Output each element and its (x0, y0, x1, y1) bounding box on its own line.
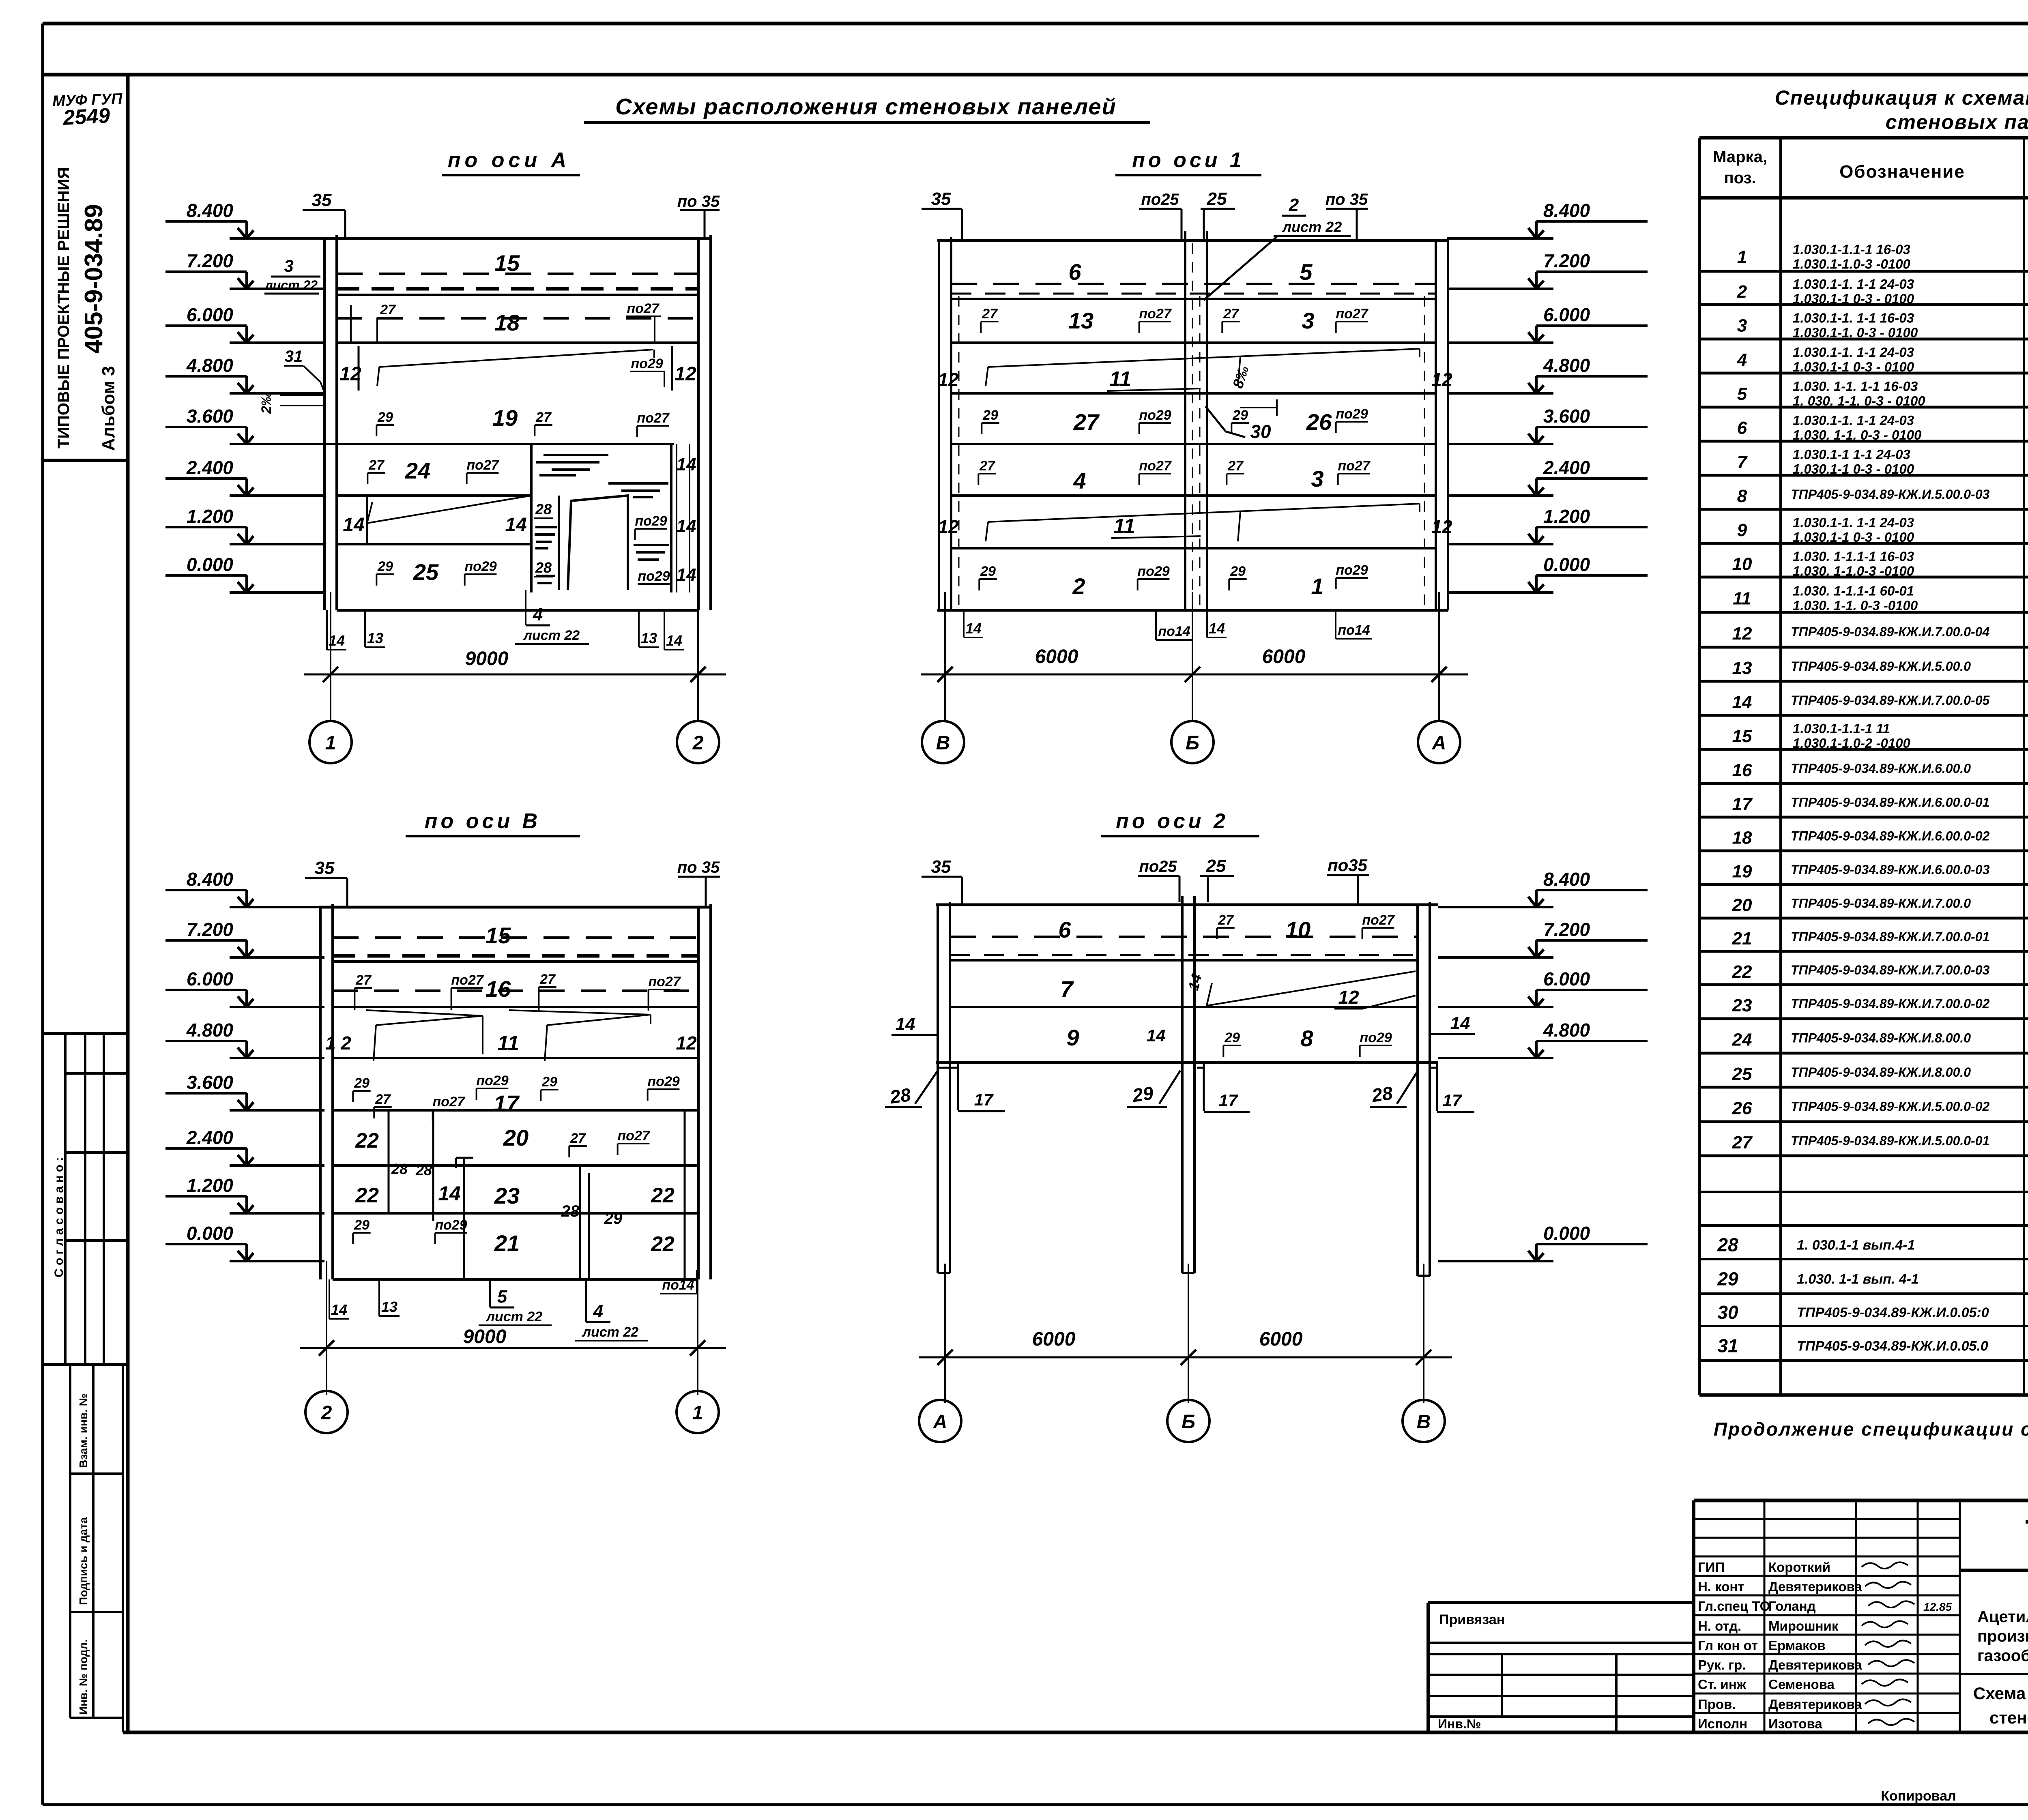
svg-text:9: 9 (1066, 1025, 1079, 1050)
wall outline po osi 2 (936, 904, 1438, 906)
svg-text:по29: по29 (1137, 564, 1169, 579)
svg-text:29: 29 (354, 1217, 370, 1233)
svg-text:ТПР405-9-034.89-КЖ.И.8.00.0: ТПР405-9-034.89-КЖ.И.8.00.0 (1791, 1031, 1971, 1045)
svg-text:13: 13 (641, 630, 657, 646)
svg-text:29: 29 (541, 1074, 557, 1090)
svg-text:по оси 2: по оси 2 (1116, 809, 1229, 833)
svg-text:2: 2 (1737, 282, 1747, 302)
svg-text:ТПР405-9-034.89-КЖ.И.5.00.0-01: ТПР405-9-034.89-КЖ.И.5.00.0-01 (1791, 1133, 1989, 1148)
svg-text:стеновых панелей: стеновых панелей (1989, 1708, 2028, 1727)
svg-text:по29: по29 (1336, 406, 1368, 422)
svg-text:7.200: 7.200 (1543, 250, 1590, 271)
svg-text:Девятерикова: Девятерикова (1768, 1657, 1862, 1672)
svg-text:12: 12 (339, 363, 361, 385)
svg-text:Альбом 3: Альбом 3 (99, 366, 118, 451)
svg-text:лист 22: лист 22 (523, 628, 580, 643)
svg-text:2549: 2549 (62, 104, 111, 130)
svg-text:по27: по27 (451, 972, 484, 988)
svg-text:по29: по29 (464, 559, 496, 574)
svg-text:ТПР405-9-034.89-КЖ.И.7.00.0-03: ТПР405-9-034.89-КЖ.И.7.00.0-03 (1791, 963, 1990, 977)
svg-text:20: 20 (1732, 895, 1752, 915)
svg-text:17: 17 (1732, 794, 1753, 814)
svg-text:8: 8 (1737, 486, 1747, 506)
elevation mark 6.000 right (1438, 1006, 1553, 1008)
svg-text:8.400: 8.400 (187, 869, 234, 890)
diagonals row 1.200 po osi 1 (988, 504, 1420, 522)
svg-text:по 35: по 35 (1326, 191, 1368, 208)
svg-text:21: 21 (494, 1230, 520, 1256)
svg-text:12: 12 (938, 369, 959, 390)
svg-text:29: 29 (1230, 564, 1246, 579)
svg-text:2: 2 (1072, 573, 1085, 599)
svg-text:28: 28 (1370, 1082, 1394, 1106)
svg-text:по27: по27 (1338, 458, 1371, 474)
svg-text:27: 27 (380, 302, 396, 318)
svg-text:29: 29 (377, 559, 393, 574)
svg-text:13: 13 (381, 1298, 397, 1315)
svg-text:14: 14 (1147, 1026, 1166, 1045)
dashed lines po osi 2 (950, 936, 1418, 938)
svg-text:12: 12 (675, 363, 696, 385)
svg-text:1.030. 1-1. 0-3 -0100: 1.030. 1-1. 0-3 -0100 (1793, 598, 1918, 613)
svg-text:11: 11 (1733, 589, 1751, 609)
svg-text:7.200: 7.200 (187, 919, 234, 940)
diagonal panel lead line row 4.800-6.000 (379, 350, 653, 367)
svg-text:0.000: 0.000 (187, 554, 234, 575)
svg-text:8: 8 (1300, 1026, 1313, 1051)
elevation mark 4.800 right (1448, 392, 1553, 395)
svg-text:1.030. 1-1 вып. 4-1: 1.030. 1-1 вып. 4-1 (1797, 1272, 1919, 1287)
svg-text:Ермаков: Ермаков (1768, 1638, 1826, 1653)
dashed 7.200 po osi B (333, 936, 698, 939)
svg-text:28: 28 (1717, 1234, 1738, 1256)
svg-text:1.030.1-1. 0-3 - 0100: 1.030.1-1. 0-3 - 0100 (1793, 325, 1918, 340)
svg-text:9000: 9000 (465, 648, 509, 670)
svg-text:лист 22: лист 22 (1282, 219, 1342, 235)
svg-text:29: 29 (980, 564, 996, 579)
elevation mark 8.400 right (1448, 237, 1553, 240)
svg-text:4.800: 4.800 (186, 1019, 234, 1041)
svg-text:ТПР405-9-034.89-КЖ.И.7.00.0-02: ТПР405-9-034.89-КЖ.И.7.00.0-02 (1791, 996, 1990, 1011)
svg-text:29: 29 (1232, 408, 1248, 423)
svg-text:0.000: 0.000 (1543, 1223, 1590, 1244)
svg-text:35: 35 (931, 857, 951, 877)
svg-text:Гл кон от: Гл кон от (1698, 1638, 1758, 1653)
svg-text:Ст. инж: Ст. инж (1698, 1677, 1747, 1692)
svg-text:3: 3 (1737, 316, 1747, 336)
svg-text:18: 18 (1732, 828, 1752, 848)
sheet inner frame top line (43, 73, 2028, 77)
svg-text:27: 27 (982, 306, 998, 322)
svg-text:1.030. 1-1. 1-1 16-03: 1.030. 1-1. 1-1 16-03 (1793, 379, 1918, 394)
svg-text:Обозначение: Обозначение (1839, 162, 1965, 182)
svg-text:22: 22 (355, 1129, 379, 1153)
svg-text:1.200: 1.200 (1543, 506, 1590, 527)
svg-text:15: 15 (486, 923, 511, 948)
svg-text:1.030.1-1. 1-1 16-03: 1.030.1-1. 1-1 16-03 (1793, 311, 1914, 326)
svg-text:А: А (933, 1411, 947, 1433)
svg-text:35: 35 (315, 858, 335, 878)
svg-text:Подпись и дата: Подпись и дата (77, 1517, 90, 1605)
svg-text:23: 23 (494, 1183, 520, 1208)
spec table header (1699, 136, 2028, 140)
svg-text:7.200: 7.200 (187, 250, 234, 271)
svg-text:29: 29 (1224, 1030, 1240, 1045)
sheet outer border (43, 22, 2028, 26)
svg-text:10: 10 (1732, 554, 1752, 574)
svg-text:по27: по27 (627, 301, 660, 316)
svg-text:Марка,: Марка, (1713, 148, 1767, 166)
svg-text:14: 14 (666, 632, 682, 649)
svg-text:Инв. № подл.: Инв. № подл. (77, 1639, 90, 1715)
svg-text:30: 30 (1717, 1302, 1738, 1323)
svg-text:по14: по14 (1158, 624, 1190, 639)
line 2.400 po osi 1 (951, 494, 1436, 497)
svg-text:1.030.1-1.1-1 16-03: 1.030.1-1.1-1 16-03 (1793, 242, 1910, 257)
svg-text:22: 22 (651, 1184, 675, 1207)
svg-text:27: 27 (375, 1092, 391, 1107)
svg-text:лист 22: лист 22 (582, 1324, 638, 1340)
dimension line 6000 6000 po osi 1 (944, 592, 946, 722)
svg-text:2: 2 (692, 732, 704, 754)
svg-text:4: 4 (1073, 468, 1086, 494)
svg-text:Пров.: Пров. (1698, 1697, 1736, 1712)
svg-text:ТПР405-9-034.89-КЖ.И.7.00.0: ТПР405-9-034.89-КЖ.И.7.00.0 (1791, 896, 1971, 911)
svg-text:Девятерикова: Девятерикова (1768, 1579, 1862, 1594)
svg-text:Девятерикова: Девятерикова (1768, 1697, 1862, 1712)
svg-text:Короткий: Короткий (1768, 1560, 1830, 1575)
svg-text:1.200: 1.200 (187, 1175, 234, 1196)
svg-text:1.030.1-1. 1-1 24-03: 1.030.1-1. 1-1 24-03 (1793, 413, 1914, 428)
svg-text:ТПР405-9-034.89-КЖ.И.6.00.0-02: ТПР405-9-034.89-КЖ.И.6.00.0-02 (1791, 829, 1990, 843)
sidebar Согласовано grid (64, 1034, 67, 1365)
svg-text:14: 14 (1450, 1013, 1470, 1033)
svg-text:Ацетиленовая станция УАС–20Г: Ацетиленовая станция УАС–20Г (1977, 1608, 2028, 1626)
svg-text:1.030.1-1 0-3 - 0100: 1.030.1-1 0-3 - 0100 (1793, 530, 1914, 545)
diagonals 4.800 row po osi B (376, 1016, 483, 1025)
svg-text:2: 2 (1289, 195, 1299, 215)
elevation mark 8.400 right (1438, 906, 1553, 908)
spec table column lines (1698, 138, 1701, 1395)
line 6.000 po osi B (333, 1006, 698, 1008)
elevation mark 7.200 right (1438, 956, 1553, 959)
svg-text:6000: 6000 (1035, 646, 1078, 667)
svg-text:В: В (1417, 1411, 1431, 1433)
svg-text:1.030.1-1. 1-1 24-03: 1.030.1-1. 1-1 24-03 (1793, 277, 1914, 292)
svg-text:27: 27 (1227, 458, 1244, 474)
column Б middle po osi 1 (1184, 231, 1186, 610)
svg-text:27: 27 (355, 972, 372, 988)
svg-text:ТПР405-9-034.89-КЖ.И.0.05.0: ТПР405-9-034.89-КЖ.И.0.05.0 (1797, 1339, 1988, 1354)
spec table rows (1699, 270, 2028, 273)
sidebar box Подпись и дата (70, 1611, 123, 1613)
axis circle 1 lower (677, 1391, 719, 1433)
svg-text:по29: по29 (647, 1074, 679, 1089)
svg-text:по оси А: по оси А (448, 148, 570, 172)
svg-text:по27: по27 (1139, 306, 1172, 322)
svg-text:6.000: 6.000 (1543, 304, 1590, 325)
line 2.400 across (337, 494, 531, 497)
svg-text:25: 25 (1732, 1064, 1752, 1084)
svg-text:по14: по14 (1338, 622, 1370, 638)
svg-text:4: 4 (1737, 350, 1747, 370)
axis circle 2 (677, 721, 719, 763)
wall outline po osi A (323, 237, 712, 240)
svg-text:26: 26 (1732, 1099, 1752, 1118)
svg-text:28: 28 (535, 559, 552, 576)
axis circle А (1418, 721, 1460, 763)
svg-text:27: 27 (979, 458, 996, 474)
line 4.800 po osi 1 (951, 392, 1436, 395)
svg-text:ТПР405-9-034.89-КЖ.И.7.00.0-01: ТПР405-9-034.89-КЖ.И.7.00.0-01 (1791, 929, 1989, 944)
svg-text:28: 28 (561, 1202, 580, 1220)
svg-text:Семенова: Семенова (1768, 1677, 1835, 1692)
svg-text:3.600: 3.600 (187, 406, 234, 427)
svg-text:6000: 6000 (1259, 1329, 1303, 1350)
svg-text:25: 25 (1207, 189, 1227, 209)
panel label 18 with dashed line (337, 317, 698, 320)
svg-text:1.030.1-1 1-1 24-03: 1.030.1-1 1-1 24-03 (1793, 447, 1910, 462)
line 3.600 po osi 1 (951, 443, 1436, 445)
svg-text:17: 17 (1443, 1091, 1462, 1110)
elevation mark 0.000 right (1448, 591, 1553, 594)
svg-text:14: 14 (677, 565, 696, 585)
svg-text:5: 5 (1737, 384, 1747, 404)
svg-text:1.030.1-1.0-2 -0100: 1.030.1-1.0-2 -0100 (1793, 736, 1911, 751)
svg-text:6000: 6000 (1032, 1329, 1076, 1350)
svg-text:19: 19 (492, 405, 518, 431)
svg-text:по27: по27 (617, 1128, 650, 1144)
svg-text:ТПР405-9-034.89-КЖ.И.5.00.0: ТПР405-9-034.89-КЖ.И.5.00.0 (1791, 659, 1971, 674)
line 1.200 po osi 1 (951, 547, 1436, 549)
svg-text:405-9-034.89: 405-9-034.89 (80, 204, 108, 354)
svg-text:3: 3 (1302, 308, 1314, 333)
console corbel stubs po osi 2 (938, 1067, 958, 1069)
svg-text:Инв.№: Инв.№ (1438, 1717, 1481, 1731)
svg-text:15: 15 (494, 250, 520, 276)
svg-text:27: 27 (1218, 912, 1234, 928)
inner frame left edge (126, 75, 130, 1732)
svg-text:25: 25 (413, 559, 439, 585)
svg-text:1: 1 (1737, 247, 1747, 267)
svg-text:27: 27 (1073, 409, 1100, 435)
svg-text:12: 12 (676, 1032, 697, 1054)
elevation mark 7.200 right (1448, 288, 1553, 290)
svg-text:29: 29 (1717, 1268, 1738, 1290)
svg-text:2‰: 2‰ (259, 392, 274, 414)
svg-text:поз.: поз. (1724, 169, 1756, 187)
svg-text:9000: 9000 (463, 1326, 507, 1348)
svg-text:газообразного ацетилена: газообразного ацетилена (1977, 1647, 2028, 1665)
column axis 1 (left) of po osi A (323, 238, 326, 610)
svg-text:2.400: 2.400 (186, 457, 234, 478)
svg-text:Н. конт: Н. конт (1698, 1579, 1744, 1594)
axis circle 1 (309, 721, 352, 763)
line 6.000 po osi 2 (950, 1006, 1418, 1008)
svg-text:по29: по29 (1360, 1030, 1392, 1045)
svg-text:11: 11 (497, 1032, 519, 1055)
svg-text:12: 12 (1338, 987, 1359, 1008)
svg-text:Б: Б (1182, 1411, 1195, 1433)
axis circle 2 lower (305, 1391, 348, 1433)
svg-text:6000: 6000 (1262, 646, 1306, 667)
svg-text:по29: по29 (476, 1073, 508, 1088)
privyazan table (1428, 1601, 1694, 1604)
svg-text:по 35: по 35 (677, 193, 720, 210)
svg-text:Исполн: Исполн (1698, 1716, 1747, 1731)
svg-text:по27: по27 (1336, 306, 1368, 322)
svg-text:4.800: 4.800 (1543, 1019, 1590, 1041)
svg-text:1.030. 1-1.0-3 -0100: 1.030. 1-1.0-3 -0100 (1793, 564, 1914, 579)
svg-text:7: 7 (1737, 452, 1748, 472)
svg-text:12: 12 (1431, 369, 1452, 390)
elevation mark 4.800 right (1438, 1057, 1553, 1059)
svg-text:14: 14 (438, 1182, 461, 1205)
svg-text:ТПР405-9-034.89-КЖ.И.7.00.0-05: ТПР405-9-034.89-КЖ.И.7.00.0-05 (1791, 693, 1990, 708)
svg-text:ТПР405-9-034.89-КЖ.И.7.00.0-04: ТПР405-9-034.89-КЖ.И.7.00.0-04 (1791, 625, 1990, 639)
svg-text:1.030.1-1 0-3 - 0100: 1.030.1-1 0-3 - 0100 (1793, 291, 1914, 306)
svg-text:14: 14 (677, 516, 696, 536)
svg-text:7: 7 (1060, 976, 1074, 1002)
svg-text:1. 030.1-1 вып.4-1: 1. 030.1-1 вып.4-1 (1797, 1238, 1915, 1253)
svg-text:по27: по27 (1362, 912, 1395, 928)
svg-text:1.030. 1-1.1-1 16-03: 1.030. 1-1.1-1 16-03 (1793, 549, 1914, 564)
svg-text:35: 35 (931, 189, 951, 209)
svg-text:23: 23 (1732, 996, 1752, 1015)
svg-text:1 2: 1 2 (325, 1032, 351, 1054)
svg-text:по35: по35 (1328, 856, 1368, 875)
svg-text:Голанд: Голанд (1768, 1599, 1816, 1614)
axis circle А lower (919, 1400, 961, 1442)
sidebar divider under title block (43, 459, 128, 462)
dashed lines 7.200 po osi 1 (951, 283, 1436, 285)
axis circle Б (1171, 721, 1214, 763)
svg-text:Взам. инв. №: Взам. инв. № (77, 1393, 90, 1468)
svg-text:21: 21 (1732, 929, 1752, 949)
svg-text:С о г л а с о в а н о :: С о г л а с о в а н о : (52, 1157, 66, 1277)
diagonals row 4.800 po osi 1 (988, 349, 1420, 367)
svg-text:ТПР405-9-034.89-КЖ.И.6.00.0-01: ТПР405-9-034.89-КЖ.И.6.00.0-01 (1791, 795, 1989, 810)
svg-text:Рук. гр.: Рук. гр. (1698, 1657, 1746, 1672)
svg-text:16: 16 (486, 976, 511, 1002)
dashed hidden panel line 7.200 (337, 273, 698, 275)
svg-text:1.030.1-1.1-1 11: 1.030.1-1.1-1 11 (1793, 721, 1890, 736)
column axis 2 left po osi B (319, 907, 322, 1279)
svg-text:ТПР405-9-034.89-КЖ.И.5.00.0-03: ТПР405-9-034.89-КЖ.И.5.00.0-03 (1791, 487, 1990, 502)
svg-text:по27: по27 (648, 974, 681, 989)
svg-text:29: 29 (1131, 1082, 1155, 1106)
svg-text:8.400: 8.400 (1543, 869, 1590, 890)
wall outline po osi 1 (937, 239, 1448, 242)
svg-text:22: 22 (355, 1184, 379, 1207)
svg-text:4: 4 (533, 605, 543, 625)
svg-text:по25: по25 (1139, 858, 1177, 876)
svg-text:0.000: 0.000 (187, 1223, 234, 1244)
svg-text:ТИПОВЫЕ ПРОЕКТНЫЕ РЕШЕНИЯ: ТИПОВЫЕ ПРОЕКТНЫЕ РЕШЕНИЯ (55, 167, 73, 449)
line 1.200 po osi B (333, 1212, 698, 1215)
svg-text:10: 10 (1285, 917, 1310, 942)
svg-text:Привязан: Привязан (1439, 1612, 1505, 1627)
line 2.400 po osi B (333, 1164, 698, 1167)
svg-text:ТПР405-9-034.89-КЖ.И.8.00.0: ТПР405-9-034.89-КЖ.И.8.00.0 (1791, 1065, 1971, 1080)
svg-text:1. 030. 1-1. 0-3 - 0100: 1. 030. 1-1. 0-3 - 0100 (1793, 393, 1925, 408)
svg-text:Б: Б (1186, 732, 1199, 754)
svg-text:Изотова: Изотова (1768, 1716, 1822, 1731)
svg-text:17: 17 (974, 1090, 994, 1109)
svg-text:31: 31 (1717, 1335, 1738, 1356)
svg-text:8.400: 8.400 (1543, 200, 1590, 221)
column Б po osi 2 (1181, 896, 1184, 1273)
vertical panel joints po osi B (388, 1110, 390, 1213)
svg-text:24: 24 (405, 458, 430, 483)
hatch group above door (544, 454, 608, 456)
svg-text:по29: по29 (635, 513, 667, 529)
svg-text:стеновых панелей: стеновых панелей (1886, 111, 2028, 133)
svg-text:по27: по27 (1139, 458, 1172, 474)
column B left po osi 1 (938, 240, 940, 610)
diagonal lead line row 24 (367, 496, 531, 523)
title block signature table (1694, 1499, 2028, 1502)
svg-text:3: 3 (284, 256, 293, 275)
svg-text:14: 14 (965, 620, 982, 637)
svg-text:8.400: 8.400 (187, 200, 234, 221)
svg-text:20: 20 (503, 1125, 528, 1150)
svg-text:17: 17 (1219, 1091, 1238, 1110)
svg-text:0.000: 0.000 (1543, 554, 1590, 575)
svg-text:ТПР405-9-034.89-КЖ.И.6.00.0-03: ТПР405-9-034.89-КЖ.И.6.00.0-03 (1791, 863, 1990, 877)
svg-text:13: 13 (1732, 658, 1752, 678)
svg-text:16: 16 (1732, 760, 1752, 780)
svg-text:25: 25 (1206, 856, 1226, 876)
inner frame bottom edge (123, 1731, 2028, 1734)
svg-text:Мирошник: Мирошник (1768, 1618, 1839, 1633)
svg-text:2.400: 2.400 (1543, 457, 1590, 478)
svg-text:27: 27 (570, 1131, 586, 1146)
svg-text:3: 3 (1311, 466, 1323, 491)
svg-text:28: 28 (415, 1162, 432, 1178)
svg-text:по14: по14 (662, 1277, 694, 1293)
panel strip 12 left (358, 346, 360, 391)
svg-text:1.030. 1-1.1-1 60-01: 1.030. 1-1.1-1 60-01 (1793, 584, 1914, 599)
svg-text:27: 27 (368, 457, 385, 473)
svg-text:ТПР405-9-034.89-КЖ.И.6.00.0: ТПР405-9-034.89-КЖ.И.6.00.0 (1791, 761, 1971, 776)
svg-text:Гл.спец ТО: Гл.спец ТО (1698, 1599, 1770, 1614)
svg-text:26: 26 (1306, 409, 1332, 435)
svg-text:27: 27 (1732, 1133, 1753, 1153)
svg-text:1: 1 (1311, 573, 1323, 599)
svg-text:по27: по27 (466, 457, 499, 473)
svg-text:29: 29 (982, 408, 998, 423)
svg-text:4.800: 4.800 (1543, 355, 1590, 376)
svg-text:Н. отд.: Н. отд. (1698, 1618, 1741, 1633)
line 6.000 po osi 1 (951, 341, 1436, 344)
svg-text:14: 14 (343, 514, 364, 536)
svg-text:Спецификация к схемам распо: Спецификация к схемам расположения (1775, 86, 2028, 109)
svg-text:по29: по29 (435, 1217, 467, 1233)
column axis 1 right po osi B (697, 907, 700, 1279)
svg-text:производительностью 20 м³/ч: производительностью 20 м³/ч (1977, 1627, 2028, 1645)
elevation mark 3.600 right (1448, 443, 1553, 445)
svg-text:по 35: по 35 (677, 858, 720, 876)
svg-text:12: 12 (938, 516, 959, 537)
svg-text:17: 17 (494, 1090, 520, 1116)
svg-text:6.000: 6.000 (187, 304, 234, 325)
svg-text:29: 29 (354, 1075, 370, 1091)
svg-text:13: 13 (1068, 308, 1093, 333)
axis circle Б lower (1167, 1400, 1209, 1442)
svg-text:9: 9 (1737, 520, 1747, 540)
dimension line 9000 po osi A (330, 592, 331, 722)
